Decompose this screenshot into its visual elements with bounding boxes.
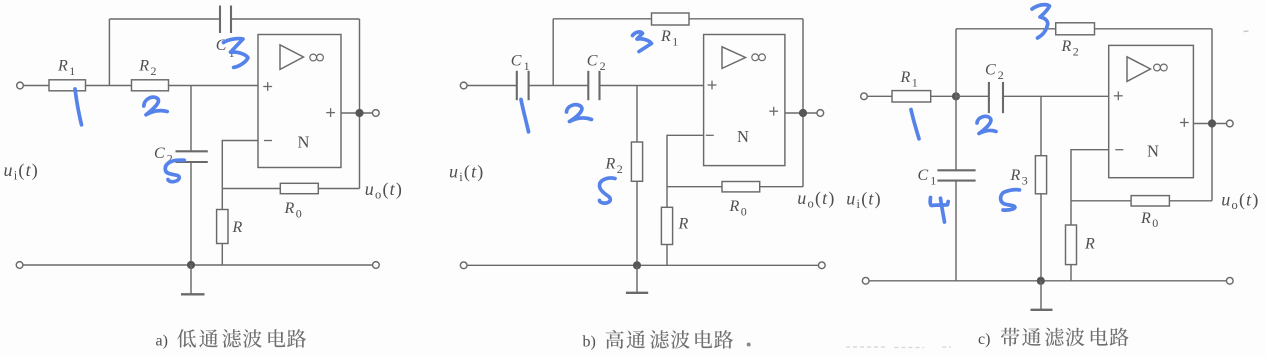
capacitor C1	[517, 71, 529, 100]
op-amp U2 + input pin	[708, 81, 717, 90]
svg-text:2: 2	[617, 162, 623, 176]
wire node A to C2	[956, 95, 989, 97]
wire node up to R1 feedback	[552, 19, 554, 86]
handwritten 4 on C1	[930, 198, 948, 223]
op-amp U3 + output pin	[1180, 118, 1189, 127]
ground symbol a	[181, 265, 205, 294]
label R	[1084, 235, 1095, 252]
resistor R3	[1035, 156, 1046, 194]
ground rail left terminal c	[862, 277, 869, 284]
handwritten 2 on C2	[977, 116, 996, 133]
wire top left to R2	[956, 28, 1056, 30]
resistor R	[1066, 225, 1077, 265]
wire C2 to op-amp + input	[1003, 95, 1109, 97]
label C2	[985, 62, 1004, 82]
resistor R2	[132, 80, 169, 91]
svg-text:N: N	[1147, 142, 1159, 161]
svg-text:C: C	[511, 52, 522, 69]
wire input to R1	[867, 95, 892, 97]
wire op-amp - input to feedback node	[1071, 150, 1109, 225]
svg-text:C: C	[154, 145, 165, 162]
svg-text:1: 1	[69, 64, 75, 78]
label ui(t) input b	[449, 161, 485, 184]
op-amp U3 triangle	[1127, 57, 1151, 82]
op-amp U1 + output pin	[326, 108, 335, 117]
wire op-amp - input to feedback node	[222, 141, 258, 210]
svg-text:R: R	[1084, 235, 1095, 252]
svg-text:a): a)	[156, 333, 168, 350]
ground rail c	[869, 280, 1227, 282]
capacitor C1 (shunt)	[937, 170, 975, 180]
op-amp U1 box	[258, 35, 341, 168]
handwritten 2 on C2	[567, 105, 592, 122]
svg-text:R: R	[1140, 210, 1151, 227]
wire feedback node to R0	[1071, 200, 1131, 202]
label uo(t) output a	[365, 179, 403, 202]
handwritten 2 on R2	[144, 97, 167, 115]
label C2	[587, 52, 606, 73]
wire top left to R1	[553, 18, 651, 20]
op-amp U2 triangle	[722, 47, 746, 69]
handwritten annotations circuit a	[75, 39, 248, 182]
handwritten 3 on R2	[1032, 5, 1050, 38]
label R2	[605, 156, 623, 176]
op-amp U3 + input pin	[1114, 91, 1123, 100]
ground rail right terminal a	[373, 262, 380, 269]
ground symbol b	[626, 265, 648, 293]
node output junction b	[799, 109, 807, 117]
ground rail left terminal b	[460, 262, 467, 269]
svg-text:3: 3	[1022, 173, 1028, 187]
handwritten 1 on C1	[521, 100, 529, 132]
svg-text:2: 2	[998, 68, 1004, 82]
svg-text:0: 0	[1152, 216, 1158, 230]
node ground junction a	[187, 261, 195, 269]
output terminal a	[372, 110, 379, 117]
resistor R0	[280, 183, 318, 193]
wire R to ground rail	[666, 245, 668, 266]
svg-text:1: 1	[524, 59, 530, 73]
svg-text:R: R	[605, 156, 616, 173]
input terminal a	[17, 82, 24, 89]
svg-text:R: R	[660, 28, 671, 45]
label C2	[154, 145, 173, 165]
handwritten 1 on R1	[75, 89, 82, 125]
caption c) band-pass filter label	[978, 328, 1129, 348]
wire node down to R3	[1040, 96, 1042, 155]
label C1	[511, 52, 530, 73]
svg-text:C: C	[918, 167, 929, 184]
wire output node vertical	[802, 19, 804, 187]
handwritten 5 on R2	[599, 178, 615, 203]
input terminal c	[861, 93, 868, 100]
label R3	[1010, 167, 1028, 187]
op-amp U1 - input pin	[264, 140, 272, 142]
svg-text:ui(t): ui(t)	[846, 189, 882, 212]
capacitor C1 (feedback, top)	[220, 6, 231, 34]
input terminal b	[460, 82, 467, 89]
label C1	[918, 167, 937, 188]
label ui(t) input a	[4, 160, 40, 183]
resistor R1 (feedback)	[652, 13, 690, 25]
svg-text:C: C	[985, 62, 996, 79]
svg-text:C: C	[587, 52, 598, 69]
wire op-amp output	[785, 112, 817, 114]
wire feedback node to R0	[667, 186, 722, 188]
handwritten 1 on R1	[911, 110, 919, 139]
output terminal c	[1226, 120, 1233, 127]
wire R2 to op-amp + input	[169, 85, 259, 87]
wire C1 to ground rail	[955, 181, 957, 281]
ground rail right terminal c	[1226, 277, 1233, 284]
wire R to ground rail	[1070, 265, 1072, 281]
capacitor C2	[176, 151, 208, 162]
ground rail a	[23, 264, 373, 266]
svg-text:0: 0	[741, 204, 747, 218]
label R0	[1140, 210, 1158, 230]
wire output node vertical	[359, 19, 361, 189]
svg-text:R: R	[1061, 38, 1072, 55]
op-amp U1 + input pin	[263, 82, 272, 91]
wire R1 to output node	[689, 18, 803, 20]
wire R0 to output vertical	[1169, 200, 1212, 202]
svg-text:ui(t): ui(t)	[449, 161, 485, 184]
wire R3 to ground rail	[1040, 194, 1042, 281]
op-amp U3 label N	[1147, 142, 1159, 161]
label R2	[138, 58, 156, 79]
label C1 (top capacitor)	[216, 37, 235, 60]
resistor R2 (feedback)	[1056, 23, 1095, 35]
node output junction c	[1208, 119, 1216, 127]
op-amp U3 infinity gain mark	[1154, 64, 1168, 71]
resistor R0	[722, 182, 760, 192]
svg-text:R: R	[57, 58, 68, 75]
op-amp U2 box	[704, 35, 785, 166]
node A junction	[952, 92, 960, 100]
label R	[232, 219, 243, 236]
wire R2 to output node	[1095, 28, 1213, 30]
wire capacitor C1 to output node	[231, 18, 360, 20]
resistor R0	[1131, 196, 1169, 206]
wire node A down to C1	[955, 96, 957, 170]
svg-text:b): b)	[583, 334, 596, 351]
resistor R	[217, 210, 228, 244]
svg-text:R: R	[232, 219, 243, 236]
svg-text:uo(t): uo(t)	[1221, 190, 1259, 213]
wire R0 to output vertical	[760, 186, 803, 188]
wire feedback node to R0	[222, 188, 280, 190]
svg-text:N: N	[298, 132, 310, 151]
svg-text:1: 1	[672, 34, 678, 48]
wire node down to R2	[636, 86, 638, 143]
handwritten annotations circuit c	[911, 5, 1050, 222]
wire input to C1	[467, 85, 517, 87]
output terminal b	[817, 110, 824, 117]
svg-text:1: 1	[930, 174, 936, 188]
node ground junction c	[1037, 277, 1045, 285]
wire R1 to node A	[931, 95, 956, 97]
svg-text:R: R	[729, 198, 740, 215]
svg-text:R: R	[138, 58, 149, 75]
handwritten 5 on C2 label	[165, 160, 184, 182]
wire C2 to op-amp + input	[600, 85, 704, 87]
svg-text:R: R	[284, 200, 295, 217]
svg-text:1: 1	[912, 75, 918, 89]
wire C1 to C2	[529, 85, 589, 87]
svg-text:2: 2	[151, 64, 157, 78]
op-amp U1 triangle	[280, 45, 304, 70]
wire op-amp output	[341, 112, 373, 114]
label R1	[660, 28, 678, 48]
label R	[678, 215, 689, 232]
op-amp U2 + output pin	[769, 107, 778, 116]
label uo(t) output b	[797, 188, 835, 211]
wire node up to top feedback	[108, 19, 110, 86]
resistor R1	[49, 80, 86, 91]
svg-text:uo(t): uo(t)	[797, 188, 835, 211]
scan smudge bottom left of caption c	[846, 346, 951, 349]
svg-text:R: R	[900, 69, 911, 86]
svg-text:R: R	[1010, 167, 1021, 184]
wire input to R1	[23, 85, 49, 87]
svg-text:uo(t): uo(t)	[365, 179, 403, 202]
label ui(t) input c	[846, 189, 882, 212]
op-amp U2 - input pin	[706, 134, 714, 136]
svg-text:R: R	[678, 215, 689, 232]
caption a) low-pass filter label	[156, 329, 307, 349]
node ground junction b	[633, 261, 641, 269]
wire op-amp output	[1193, 123, 1226, 125]
resistor R2	[631, 142, 642, 181]
op-amp U1 label N	[298, 132, 310, 151]
label R1	[900, 69, 918, 89]
svg-text:2: 2	[600, 59, 606, 73]
label R0	[284, 200, 302, 220]
svg-text:0: 0	[296, 206, 302, 220]
ground rail right terminal b	[818, 262, 825, 269]
caption b trailing dot	[747, 343, 751, 347]
label R1	[57, 58, 75, 78]
wire C2 to ground rail	[190, 162, 192, 265]
wire node A up to R2 feedback	[955, 29, 957, 97]
wire top left to capacitor C1	[109, 18, 220, 20]
caption b) high-pass filter label	[583, 330, 751, 351]
wire output node vertical	[1211, 29, 1213, 201]
capacitor C2	[989, 82, 1003, 113]
resistor R	[661, 207, 672, 244]
svg-text:c): c)	[978, 331, 990, 348]
wire R to ground rail	[221, 244, 223, 266]
svg-text:N: N	[737, 127, 749, 146]
ground rail b	[467, 264, 819, 266]
op-amp U3 box	[1109, 45, 1194, 177]
handwritten 5 on R3	[1001, 190, 1020, 210]
wire R0 to output vertical	[318, 188, 359, 190]
label uo(t) output c	[1221, 190, 1259, 213]
handwritten 3 on C1 label	[224, 39, 249, 68]
wire node down to C2	[190, 86, 192, 152]
resistor R1	[892, 91, 931, 102]
op-amp U1 infinity gain mark	[310, 54, 324, 61]
node output junction a	[355, 109, 363, 117]
ground symbol c	[1031, 281, 1053, 310]
ground rail left terminal a	[16, 262, 23, 269]
op-amp U2 infinity gain mark	[752, 54, 766, 61]
op-amp U3 - input pin	[1115, 149, 1123, 151]
svg-text:ui(t): ui(t)	[4, 160, 40, 183]
wire R1 to R2	[86, 85, 132, 87]
label R2	[1061, 38, 1079, 58]
handwritten annotations circuit b	[521, 32, 652, 203]
op-amp U2 label N	[737, 127, 749, 146]
wire R2 to ground rail	[636, 181, 638, 265]
handwritten 3 on R1	[633, 32, 652, 52]
wire op-amp - input to feedback node	[667, 135, 704, 207]
faint scan mark top right	[1244, 30, 1249, 33]
svg-text:2: 2	[1073, 45, 1079, 59]
capacitor C2	[588, 71, 599, 100]
label R0	[729, 198, 747, 218]
